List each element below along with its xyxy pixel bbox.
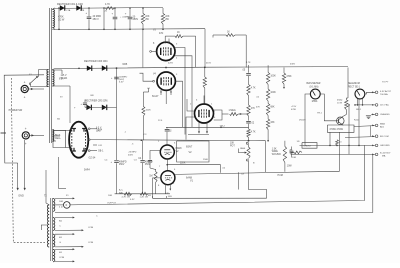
svg-text:CHASSIS: CHASSIS: [380, 113, 390, 116]
ground symbol: [366, 115, 371, 117]
label box 6SN7: [177, 141, 209, 162]
svg-text:COM: COM: [88, 227, 93, 229]
svg-text:425V: 425V: [168, 62, 174, 64]
svg-text:WOUND: WOUND: [272, 154, 281, 156]
meter M1 bias meter: [310, 89, 320, 99]
junction bias rail left: [78, 68, 80, 70]
tube V2 driver 6SN7: [195, 104, 214, 123]
svg-text:8Ω: 8Ω: [128, 195, 131, 197]
wire coupling rail y127: [166, 126, 249, 128]
wire box to tube pin upper: [66, 130, 70, 132]
resistor R5 screen 1K: [175, 35, 183, 38]
transformer T2 primary winding: [47, 205, 49, 247]
resistor R9 grid: [154, 172, 157, 183]
capacitor C14 doubler cap: [84, 105, 86, 107]
diode D4 bias rectifier: [102, 65, 107, 70]
svg-text:BIAS: BIAS: [380, 123, 386, 126]
terminal 4: [375, 124, 378, 127]
wire 220K feedback: [167, 164, 220, 166]
svg-text:SR-1: SR-1: [356, 109, 362, 111]
switch S1 on off: [31, 78, 37, 84]
wire V4 plate lead: [175, 81, 182, 127]
svg-text:OUTPUT: OUTPUT: [107, 202, 117, 204]
wire B+ rail to right vertical: [205, 66, 348, 69]
wire terminal3 lead: [371, 113, 375, 115]
transformer T1 rectifier heater winding: [52, 130, 54, 142]
svg-text:GND: GND: [18, 195, 24, 198]
svg-text:M501: M501: [312, 101, 318, 103]
resistor R4: [162, 8, 164, 14]
wire terminal1 lead: [371, 91, 375, 93]
wire cross vertical x349: [348, 105, 350, 154]
wire 6.3V bottom lead: [52, 85, 70, 87]
svg-text:4Ω: 4Ω: [59, 237, 62, 239]
resistor R15 chain B: [266, 89, 269, 101]
svg-text:POWER SW: POWER SW: [9, 109, 23, 112]
svg-text:47ΩW 47ΩW: 47ΩW 47ΩW: [329, 129, 343, 131]
label stub 16 ohm: [165, 196, 167, 198]
wire tap stub g4 top: [55, 248, 73, 250]
svg-text:68K: 68K: [270, 106, 275, 108]
svg-text:100K: 100K: [146, 110, 152, 112]
svg-text:4.7K: 4.7K: [251, 87, 256, 89]
tube V5 pin cathode: [88, 139, 90, 141]
wire right vertical x348: [347, 68, 349, 99]
svg-text:1M: 1M: [149, 174, 152, 177]
wire feedback line L2: [70, 145, 364, 205]
wire V2 pins down: [198, 122, 200, 132]
tube V3 6CA7 upper: [157, 42, 175, 60]
wire primary bottom lead: [31, 86, 49, 88]
wire tap stub g2 top: [55, 217, 73, 219]
svg-text:450V: 450V: [145, 164, 151, 166]
junction dots right rails: [336, 145, 338, 147]
svg-text:1Ω: 1Ω: [297, 141, 300, 143]
wire V2 left grid: [187, 99, 195, 111]
svg-text:GB-1: GB-1: [98, 151, 104, 153]
terminal 6 ground: [375, 144, 378, 147]
capacitor C8 40MFD: [114, 160, 119, 162]
wire x104 drop: [103, 8, 105, 29]
wire rail lower: [52, 28, 205, 31]
svg-text:1/2 W: 1/2 W: [58, 18, 65, 21]
wire R20 top link: [346, 97, 348, 99]
resistor R16 chain B: [266, 104, 269, 116]
wire 6.3V top lead: [52, 69, 62, 71]
wire chain A mid: [248, 96, 250, 106]
diode D1 silicon rectifier: [60, 5, 65, 10]
wire heater drop x116.5: [116, 68, 118, 160]
svg-text:HUM: HUM: [278, 175, 283, 177]
wire 220K drop: [220, 165, 222, 173]
transformer T2 secondary group3: [53, 234, 55, 247]
svg-text:+: +: [24, 80, 26, 84]
wire R6 right drop: [235, 34, 246, 36]
wire screen resistor to drop: [183, 35, 196, 37]
capacitor C5 coupling: [166, 127, 168, 128]
svg-text:115 V AC: 115 V AC: [380, 104, 389, 107]
svg-text:RECTIFIER CR5 CR6: RECTIFIER CR5 CR6: [85, 101, 108, 103]
wire V4 cathode down: [165, 90, 167, 104]
svg-text:4.7K: 4.7K: [105, 3, 110, 6]
svg-text:5AR4: 5AR4: [84, 169, 90, 172]
wire chassis ground runs: [17, 163, 19, 189]
resistor R17 chain B: [266, 119, 269, 130]
svg-text:470K: 470K: [286, 76, 292, 78]
wire R8 to chain: [238, 113, 248, 115]
svg-text:10K: 10K: [230, 143, 235, 145]
diode D6 bias doubler: [102, 105, 107, 110]
svg-text:470K: 470K: [291, 109, 297, 111]
wire x143 link rail to bias rail: [142, 29, 144, 67]
resistor R12 chain A lower: [247, 105, 250, 116]
svg-text:2N109: 2N109: [299, 120, 306, 122]
svg-text:100MFD: 100MFD: [119, 76, 128, 78]
svg-text:TR-1: TR-1: [317, 112, 323, 114]
wire b+ line: [297, 153, 376, 155]
transformer T1 HV secondary winding: [53, 10, 55, 28]
terminal 7 B plus: [375, 153, 378, 156]
pin circle V3 top2: [168, 42, 170, 44]
terminal 2 active: [375, 104, 378, 107]
wire V3 screen up: [164, 36, 166, 41]
svg-text:400V: 400V: [128, 154, 134, 156]
input panel border solid: [4, 75, 44, 163]
wire V1a to V1b: [166, 159, 168, 171]
svg-text:C7B: C7B: [80, 10, 85, 12]
svg-text:+: +: [25, 127, 27, 131]
tube V4 6CA7 lower: [157, 72, 175, 90]
shunt box: [302, 143, 317, 149]
svg-text:450Ω: 450Ω: [337, 100, 343, 102]
wire L1 left tick: [152, 196, 154, 198]
wire pin rail y134.5: [188, 134, 209, 136]
junction bias rail: [165, 67, 167, 69]
svg-text:430V: 430V: [290, 64, 296, 66]
wire chain B 3: [267, 116, 269, 120]
wire hum rail drop: [339, 132, 341, 171]
wire heater stub x58: [58, 157, 60, 189]
svg-text:8Ω COM: 8Ω COM: [380, 136, 389, 138]
wire chain B top: [267, 65, 269, 72]
resistor R18 1.5K WW: [284, 141, 286, 147]
wire V2 right plate to R8: [222, 113, 229, 115]
svg-text:GROUND: GROUND: [380, 145, 390, 147]
tube V1b small: [161, 171, 175, 185]
svg-text:SHUNT: SHUNT: [303, 146, 311, 148]
wire HV bottom to rail: [52, 28, 55, 30]
wire V4 grid lead: [153, 80, 155, 82]
wire primary top lead: [39, 69, 49, 71]
wire V3 grid lead: [152, 50, 157, 52]
resistor R23 grid return: [142, 107, 145, 117]
pin box V2 right: [214, 110, 222, 120]
wire R23 to bus: [142, 116, 144, 140]
wire J1 to transformer: [28, 88, 44, 90]
wire tap stub g2 bottom: [55, 229, 82, 231]
junction dots supply rails: [88, 7, 90, 9]
wire M1 right lead: [320, 94, 338, 121]
svg-text:16Ω: 16Ω: [108, 195, 112, 197]
transformer T1 heater winding 6.3V: [52, 70, 54, 86]
wire terminal 4-5 bracket: [370, 125, 372, 136]
wire feedback link: [238, 172, 240, 189]
wire V3 screen lead: [174, 56, 192, 128]
wire M2 right lead: [365, 92, 375, 94]
wire heater lead 2: [52, 135, 60, 137]
svg-text:GZ-34: GZ-34: [89, 156, 96, 159]
wire V2 top cathode tick: [203, 96, 205, 105]
wire plate drop x204: [204, 67, 206, 77]
wire chain B bottom: [267, 130, 269, 141]
svg-text:40MFD: 40MFD: [145, 161, 153, 163]
svg-text:10W: 10W: [287, 166, 293, 168]
wire V3 plate lead: [174, 48, 185, 135]
capacitor C13 bias filter: [114, 76, 119, 78]
transformer T2 secondary group2: [53, 218, 55, 231]
capacitor C1 40MFD: [88, 8, 90, 16]
wire J2 to transformer: [29, 134, 44, 136]
svg-text:6CA7: 6CA7: [152, 94, 159, 98]
svg-text:450V: 450V: [133, 18, 139, 21]
resistor R3: [142, 8, 144, 14]
wire M2 left lead: [357, 99, 359, 105]
input panel border dashed: [11, 78, 45, 243]
svg-text:NFB: NFB: [123, 63, 128, 66]
resistor R6 screen lower: [226, 34, 235, 37]
resistor R11 chain A: [247, 85, 250, 96]
wire V2 left lower: [186, 117, 195, 140]
wire chain A top: [248, 65, 250, 73]
diode D2 silicon rectifier: [76, 5, 81, 10]
wire tap g1 top: [55, 197, 73, 199]
wire M1 left lead: [305, 94, 310, 145]
svg-text:100K: 100K: [270, 75, 276, 77]
svg-text:WIRE: WIRE: [272, 151, 278, 153]
svg-text:6SN7: 6SN7: [186, 146, 193, 149]
wire pot bottom run: [249, 161, 267, 198]
svg-text:G: G: [59, 242, 61, 244]
border tick mark: [1, 132, 7, 134]
svg-text:220K: 220K: [180, 162, 186, 164]
wire cathode row: [115, 193, 170, 195]
wire T2 primary left tap: [41, 225, 47, 230]
terminal 5: [375, 135, 378, 138]
resistor R14 chain B: [266, 73, 269, 85]
svg-text:100K: 100K: [270, 92, 276, 94]
svg-text:47K: 47K: [251, 108, 256, 110]
input jack J1: [21, 85, 28, 92]
terminal 1 plus: [375, 91, 378, 94]
wire bias rail: [52, 67, 205, 69]
wire chain B 1: [267, 85, 269, 90]
svg-text:BIAS: BIAS: [55, 134, 61, 137]
svg-text:MA: MA: [382, 155, 386, 158]
resistor R7 plate 22K: [203, 77, 206, 88]
wire V1b plate right: [174, 171, 339, 174]
input jack J2: [22, 132, 29, 139]
wire chain A to cap: [248, 116, 250, 121]
svg-text:700 MA: 700 MA: [380, 93, 388, 96]
svg-text:SELENIUM: SELENIUM: [348, 83, 360, 85]
resistor R19 upper right: [283, 68, 285, 74]
potentiometer P1 bias: [246, 142, 248, 144]
transformer T2 secondary group1: [53, 199, 55, 212]
bias network box: [327, 125, 354, 132]
wire cross vertical x359: [358, 99, 360, 145]
svg-text:250K: 250K: [203, 159, 209, 161]
wire V4 pins down: [160, 90, 162, 95]
capacitor C12 right of R18: [291, 147, 293, 151]
wire R20 to transistor: [345, 110, 347, 115]
diode D5 bias doubler: [86, 105, 91, 110]
capacitor C2: [114, 8, 116, 17]
svg-text:47K: 47K: [256, 107, 260, 109]
tube V5 pin plate 1: [88, 128, 90, 130]
transformer T1 primary winding: [47, 70, 49, 87]
svg-text:1K: 1K: [177, 32, 180, 34]
wire divider drop x59: [58, 8, 60, 29]
transformer T2 secondary group4: [53, 249, 55, 261]
svg-text:4 Ω: 4 Ω: [59, 206, 63, 208]
svg-text:COM: COM: [88, 242, 93, 244]
svg-text:47Ω: 47Ω: [159, 33, 164, 35]
wire box to terminal 125: [354, 125, 375, 128]
output transformer T2 core: [50, 198, 52, 261]
svg-text:BIAS: BIAS: [240, 147, 246, 150]
wire filter bus: [90, 140, 266, 141]
terminal lead arrows: [372, 91, 374, 93]
wire box to tube pin lower: [66, 147, 70, 149]
svg-text:(0-1 MA): (0-1 MA): [310, 85, 319, 88]
wire tap stub g4 bottom: [55, 260, 73, 262]
wire pin stub arrows: [93, 144, 97, 146]
svg-text:16Ω: 16Ω: [59, 201, 63, 203]
svg-text:B+ A 700V: B+ A 700V: [380, 152, 391, 155]
wire rail drop to mid rail: [204, 29, 206, 67]
wire R7 to V2: [204, 88, 206, 104]
resistor R10b: [140, 192, 148, 195]
bias cell box: [53, 131, 66, 148]
svg-text:+ .02MFD: + .02MFD: [120, 16, 130, 18]
svg-text:8Ω: 8Ω: [59, 220, 62, 222]
svg-text:4Ω: 4Ω: [59, 252, 62, 254]
resistor R2 series 4.7K: [106, 7, 115, 10]
junction chain A bus: [248, 138, 250, 141]
resistor R8 1 MEG: [230, 113, 239, 116]
power transformer T1 core: [49, 8, 51, 143]
tube V1a small: [160, 145, 174, 159]
wire chain B 2: [267, 101, 269, 104]
svg-text:GB-2: GB-2: [220, 126, 226, 128]
svg-text:1K: 1K: [227, 31, 230, 33]
diode D3 bias rectifier: [87, 65, 92, 70]
capacitor C10 chain A: [246, 73, 251, 75]
wire V1a grid left: [150, 151, 160, 156]
svg-text:415V: 415V: [206, 62, 212, 64]
svg-text:125 V: 125 V: [61, 75, 67, 77]
svg-text:1.5K: 1.5K: [272, 148, 277, 150]
svg-text:COM: COM: [59, 257, 64, 259]
wire V4 grid return: [148, 88, 150, 92]
capacitor C6 input coupling: [149, 155, 151, 160]
svg-text:+15V: +15V: [291, 106, 297, 108]
transistor Q1: [337, 117, 345, 125]
wire HV top to rail: [52, 8, 55, 10]
svg-text:CELL: CELL: [55, 138, 61, 140]
svg-text:450V: 450V: [119, 164, 125, 166]
wire doubler row: [85, 106, 117, 108]
svg-text:1 MEG: 1 MEG: [229, 110, 236, 112]
wire heater lead 1: [52, 130, 66, 132]
wire loop L1: [153, 197, 267, 199]
wire box bottom drop: [329, 132, 331, 145]
svg-text:TO PT: TO PT: [382, 81, 389, 83]
wire V1b grid left: [153, 178, 162, 198]
wire chain B below bus: [265, 141, 267, 172]
svg-text:AC: AC: [290, 149, 293, 152]
svg-text:47K: 47K: [165, 193, 169, 195]
capacitor C3: [129, 8, 131, 17]
svg-text:450 V: 450 V: [93, 18, 100, 21]
svg-text:RECT SE-1: RECT SE-1: [348, 86, 361, 88]
wire tap stub g3 top: [55, 233, 73, 235]
wire heater lead 3: [52, 140, 56, 142]
svg-text:4.7K: 4.7K: [251, 132, 256, 134]
wire V1b cathode down: [165, 184, 167, 194]
svg-text:33K: 33K: [270, 122, 275, 124]
wire tap stub g3 bottom: [55, 246, 82, 248]
svg-text:4.7K: 4.7K: [246, 62, 251, 64]
svg-text:5U4: 5U4: [98, 130, 103, 132]
meter M2 selenium rectifier: [355, 89, 365, 99]
wire T2 primary top lead: [46, 170, 49, 205]
svg-text:10Ω: 10Ω: [292, 157, 296, 159]
svg-text:BIAS METER: BIAS METER: [307, 82, 321, 85]
svg-text:6.3V: 6.3V: [59, 78, 64, 80]
tube V5 rectifier GZ34: [69, 122, 88, 158]
resistor R13 chain A: [247, 129, 250, 138]
wire R18 bottom: [284, 163, 286, 172]
wire R6 left: [213, 34, 226, 36]
svg-text:.25 MFD: .25 MFD: [128, 152, 137, 154]
capacitor C11 chain A bottom: [246, 120, 251, 122]
terminal 3 ground lug: [375, 113, 378, 116]
wire terminal2 lead: [355, 104, 375, 106]
svg-text:6.3V AC’87: 6.3V AC’87: [380, 90, 392, 93]
svg-text:16Ω: 16Ω: [168, 196, 172, 198]
svg-text:BR: BR: [91, 95, 94, 97]
wire R19 bottom stub: [283, 84, 285, 88]
svg-text:C7A: C7A: [66, 9, 71, 12]
svg-text:RECTIFIER CR3 CR4: RECTIFIER CR3 CR4: [84, 60, 108, 63]
svg-text:40MFD: 40MFD: [119, 161, 127, 163]
resistor R10a AC bal: [124, 192, 132, 195]
svg-text:R-50: R-50: [354, 119, 360, 121]
wire B+ top rail: [55, 6, 163, 9]
capacitor C7: [140, 160, 144, 162]
svg-text:POT: POT: [230, 145, 235, 147]
svg-text:RECTIFIER CR1 & CR2: RECTIFIER CR1 & CR2: [57, 3, 83, 6]
resistor R22 vertical to shunt: [336, 140, 339, 146]
svg-text:6.3V: 6.3V: [119, 81, 124, 83]
wire feedback line L3: [55, 154, 373, 212]
wire shunt line: [300, 144, 376, 146]
resistor R20 450 ohm: [345, 98, 347, 100]
svg-text:+: +: [25, 142, 27, 146]
svg-text:A.C.: A.C.: [119, 189, 124, 192]
pilot lamp PL1: [55, 204, 63, 206]
